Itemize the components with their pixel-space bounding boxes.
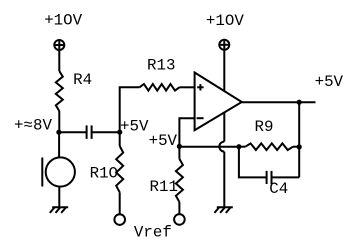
resistor R4 — [56, 71, 63, 111]
resistor R9 — [245, 143, 293, 150]
wire microphone to ground — [58, 186, 60, 207]
wire R11 to Vref terminal — [178, 202, 180, 214]
power supply terminal V1 (+10V left) — [54, 40, 64, 50]
svg-text:R13: R13 — [147, 57, 175, 75]
power supply terminal V2 (+10V right) — [219, 40, 229, 50]
wire op-amp output — [242, 101, 316, 103]
wire node A to microphone — [58, 132, 60, 158]
svg-text:R4: R4 — [73, 71, 92, 89]
node B junction dot (+5V) — [117, 130, 122, 135]
node F junction dot (R9 right) — [297, 144, 302, 149]
wire C4 to right rail — [272, 176, 300, 178]
wire node D down to R11 — [178, 146, 180, 158]
resistor R13 — [140, 84, 180, 91]
wire R9 to node F — [293, 146, 299, 148]
resistor R11 — [176, 159, 183, 202]
op-amp U1 — [195, 73, 242, 131]
wire node E down to C4 branch — [239, 147, 267, 178]
wire node E to R9 — [239, 146, 245, 148]
svg-text:R11: R11 — [150, 178, 178, 196]
wire R4 to node A — [58, 111, 60, 132]
ground (op-amp) — [214, 207, 232, 213]
svg-text:+5V: +5V — [120, 118, 149, 136]
wire supply1 to R4 — [58, 50, 60, 71]
svg-text:+1OV: +1OV — [44, 12, 82, 30]
node A junction dot (+≈8V) — [56, 130, 61, 135]
svg-text:R9: R9 — [255, 118, 274, 136]
microphone MK1 — [42, 157, 75, 186]
wire node D to R9 left node — [179, 146, 239, 148]
wire node B down to R10 — [119, 132, 121, 146]
wire node A to coupling capacitor — [59, 131, 87, 133]
svg-text:+≈8V: +≈8V — [14, 116, 52, 134]
capacitor C4 — [267, 171, 272, 184]
wire inverting input to node D — [179, 118, 194, 146]
wire hop to ground — [223, 152, 225, 208]
node E junction dot (R9 left) — [236, 144, 241, 149]
terminal (R10 bottom) — [114, 214, 125, 225]
svg-text:+1OV: +1OV — [206, 12, 244, 30]
ground (mic) — [50, 207, 68, 213]
node D junction dot — [177, 144, 182, 149]
wire R13 to op-amp + input — [179, 86, 194, 88]
svg-text:C4: C4 — [269, 180, 288, 198]
wire capacitor to node B — [92, 131, 120, 133]
wire R10 to terminal — [119, 192, 121, 214]
wire op-amp V- pin down — [223, 112, 225, 141]
svg-text:Vref: Vref — [134, 223, 172, 241]
capacitor C (coupling) — [87, 125, 92, 138]
svg-text:R1O: R1O — [90, 165, 118, 183]
node C junction dot (output) — [297, 100, 302, 105]
wire output node down right rail — [298, 102, 300, 177]
wire hop over feedback wire — [219, 142, 224, 152]
wire node B up to R13 — [120, 87, 140, 132]
wire supply2 to op-amp V+ pin — [223, 50, 225, 91]
svg-text:+5V: +5V — [315, 73, 344, 91]
svg-text:+5V: +5V — [149, 132, 178, 150]
resistor R10 — [116, 146, 123, 192]
terminal Vref — [174, 214, 185, 225]
